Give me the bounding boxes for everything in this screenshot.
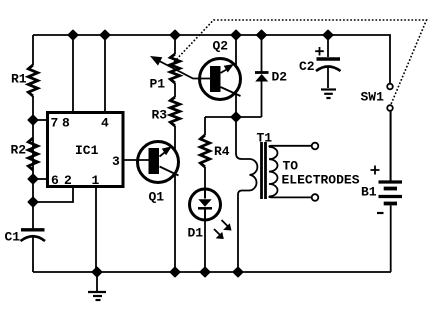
svg-text:T1: T1 <box>257 131 273 146</box>
svg-text:R3: R3 <box>152 108 168 123</box>
svg-text:1: 1 <box>92 173 100 188</box>
svg-text:2: 2 <box>64 173 72 188</box>
svg-text:ELECTRODES: ELECTRODES <box>282 173 360 188</box>
svg-text:B1: B1 <box>361 185 377 200</box>
svg-text:R4: R4 <box>214 144 230 159</box>
svg-text:D2: D2 <box>272 70 288 85</box>
svg-text:IC1: IC1 <box>75 143 99 158</box>
svg-text:P1: P1 <box>150 77 166 92</box>
svg-text:8: 8 <box>62 116 70 131</box>
svg-text:R1: R1 <box>11 72 27 87</box>
svg-text:3: 3 <box>112 154 120 169</box>
svg-text:Q1: Q1 <box>149 190 165 205</box>
svg-text:6: 6 <box>51 173 59 188</box>
svg-text:7: 7 <box>51 116 59 131</box>
svg-text:R2: R2 <box>11 143 27 158</box>
svg-text:Q2: Q2 <box>213 39 229 54</box>
svg-text:C1: C1 <box>5 230 21 245</box>
svg-text:SW1: SW1 <box>361 90 385 105</box>
svg-text:4: 4 <box>101 116 109 131</box>
svg-text:D1: D1 <box>188 226 204 241</box>
svg-text:C2: C2 <box>299 59 315 74</box>
svg-text:TO: TO <box>283 159 299 174</box>
